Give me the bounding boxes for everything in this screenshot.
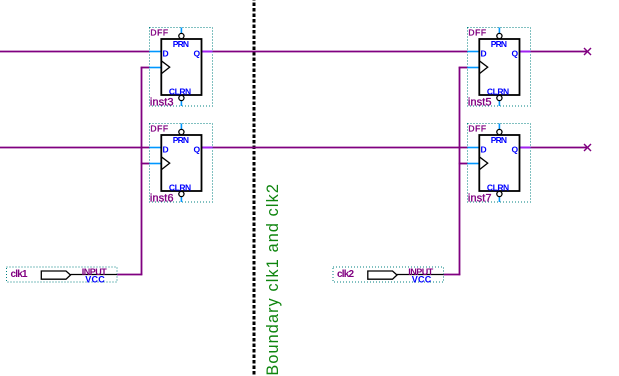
inst5 body rectangle (479, 39, 519, 95)
clk2 dotted selection boundary (333, 267, 444, 282)
svg-text:CLRN: CLRN (169, 182, 191, 192)
inst7 PRN top stub (498, 124, 500, 130)
wire net2 input segment (0, 147, 150, 149)
inst3 PRN top stub (180, 28, 182, 34)
svg-text:Q: Q (194, 145, 201, 155)
inst3 D input stub (150, 51, 162, 53)
inst7 body rectangle (479, 135, 519, 191)
svg-text:Q: Q (512, 145, 519, 155)
svg-text:VCC: VCC (412, 275, 432, 285)
inst6 clock input stub (150, 163, 162, 165)
wire clk2 branch to inst7 clock (459, 163, 468, 165)
inst6 D input stub (150, 147, 162, 149)
svg-text:PRN: PRN (173, 39, 189, 49)
inst5 Q output stub (520, 51, 531, 53)
svg-text:D: D (163, 145, 169, 155)
inst7 clock input stub (468, 163, 480, 165)
input pin clk2 (INPUT VCC) (333, 267, 444, 285)
svg-text:CLRN: CLRN (487, 182, 509, 192)
wire clk1 horizontal from pin (117, 274, 142, 276)
svg-text:PRN: PRN (491, 135, 507, 145)
svg-text:VCC: VCC (85, 275, 105, 285)
inst3 CLRN inversion bubble (179, 95, 184, 100)
inst6 body rectangle (161, 135, 201, 191)
D flip-flop inst7 (DFF primitive) (468, 124, 531, 205)
wire clk2 horizontal from pin (444, 274, 461, 276)
inst6 CLRN bottom stub (180, 197, 182, 203)
svg-text:DFF: DFF (468, 124, 486, 134)
inst3 dotted selection boundary (150, 28, 213, 107)
inst7 dotted selection boundary (468, 124, 531, 203)
dangling-net X marker net1 end (584, 48, 591, 55)
clk1 dotted selection boundary (7, 267, 118, 282)
inst6 Q output stub (202, 147, 213, 149)
wire clk1 branch to inst6 clock (141, 163, 150, 165)
clk2 pin output line (397, 274, 444, 276)
inst5 dotted selection boundary (468, 28, 531, 107)
inst5 PRN inversion bubble (497, 33, 502, 38)
svg-text:inst3: inst3 (150, 97, 174, 109)
inst7 clock edge triangle (479, 157, 487, 170)
D flip-flop inst3 (DFF primitive) (150, 28, 213, 109)
wire clk1 branch to inst3 clock (141, 67, 150, 69)
inst6 PRN top stub (180, 124, 182, 130)
inst6 PRN inversion bubble (179, 129, 184, 134)
svg-text:D: D (481, 49, 487, 59)
svg-text:PRN: PRN (491, 39, 507, 49)
svg-text:D: D (481, 145, 487, 155)
inst7 PRN inversion bubble (497, 129, 502, 134)
D flip-flop inst5 (DFF primitive) (468, 28, 531, 109)
svg-text:inst6: inst6 (150, 193, 174, 205)
wire net1 input segment (0, 51, 150, 53)
inst3 clock edge triangle (161, 61, 169, 74)
inst6 CLRN inversion bubble (179, 191, 184, 196)
svg-text:Q: Q (194, 49, 201, 59)
svg-text:clk2: clk2 (337, 269, 355, 280)
svg-text:DFF: DFF (150, 28, 168, 38)
wire net1 inst5.Q dangling (531, 51, 587, 53)
svg-text:CLRN: CLRN (487, 86, 509, 96)
D flip-flop inst6 (DFF primitive) (150, 124, 213, 205)
svg-text:inst7: inst7 (468, 193, 492, 205)
svg-text:PRN: PRN (173, 135, 189, 145)
svg-text:clk1: clk1 (11, 269, 29, 280)
svg-text:D: D (163, 49, 169, 59)
input pin clk1 (INPUT VCC) (7, 267, 118, 285)
wire net1 inst3.Q to inst5.D (213, 51, 468, 53)
wire net2 inst6.Q to inst7.D (213, 147, 468, 149)
clk1 pin arrow shape (41, 271, 70, 279)
inst3 body rectangle (161, 39, 201, 95)
inst6 clock edge triangle (161, 157, 169, 170)
inst3 CLRN bottom stub (180, 101, 182, 107)
wire net2 inst7.Q dangling (531, 147, 587, 149)
inst5 clock input stub (468, 67, 480, 69)
inst5 CLRN bottom stub (498, 101, 500, 107)
inst3 PRN inversion bubble (179, 33, 184, 38)
inst7 CLRN inversion bubble (497, 191, 502, 196)
inst7 D input stub (468, 147, 480, 149)
svg-text:CLRN: CLRN (169, 86, 191, 96)
dangling-net X marker net2 end (584, 144, 591, 151)
wire clk2 vertical riser (459, 67, 461, 276)
clk1 pin output line (71, 274, 118, 276)
inst6 dotted selection boundary (150, 124, 213, 203)
inst5 D input stub (468, 51, 480, 53)
wire clk2 branch to inst5 clock (459, 67, 468, 69)
wire clk1 vertical riser (141, 67, 143, 276)
inst5 CLRN inversion bubble (497, 95, 502, 100)
svg-text:Boundary clk1 and clk2: Boundary clk1 and clk2 (264, 183, 282, 376)
boundary partition dashed line between clk1 and clk2 domains (252, 0, 255, 376)
svg-text:Q: Q (512, 49, 519, 59)
inst7 CLRN bottom stub (498, 197, 500, 203)
svg-text:DFF: DFF (150, 124, 168, 134)
clk2 pin arrow shape (368, 271, 397, 279)
inst5 PRN top stub (498, 28, 500, 34)
inst3 Q output stub (202, 51, 213, 53)
svg-text:DFF: DFF (468, 28, 486, 38)
inst5 clock edge triangle (479, 61, 487, 74)
inst7 Q output stub (520, 147, 531, 149)
inst3 clock input stub (150, 67, 162, 69)
svg-text:inst5: inst5 (468, 97, 492, 109)
